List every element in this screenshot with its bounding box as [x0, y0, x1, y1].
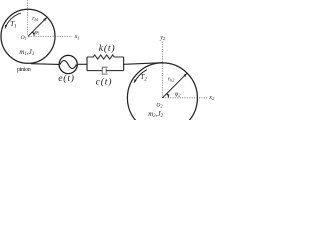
- svg-text:O2: O2: [156, 103, 162, 109]
- svg-text:pinion: pinion: [17, 67, 31, 73]
- axis x2 dashed horizontal (gear): [163, 97, 208, 99]
- svg-text:φ2: φ2: [175, 91, 181, 98]
- damper rod wire: [106, 70, 123, 72]
- svg-text:φ1: φ1: [35, 30, 40, 36]
- damper piston: [105, 68, 107, 73]
- pinion circle m1,J1: [1, 9, 55, 63]
- axis y1 dashed vertical (pinion): [27, 0, 29, 36]
- source e(t) circle: [59, 55, 77, 73]
- torque arrow T2: [134, 70, 147, 83]
- svg-text:e(t): e(t): [58, 73, 75, 84]
- angle arc phi1: [32, 32, 34, 36]
- torque arrow T1: [5, 13, 21, 28]
- spring-damper block left bar: [86, 57, 88, 71]
- gear circle m2,J2: [127, 63, 197, 133]
- axis x1 dashed horizontal (pinion): [28, 36, 72, 38]
- svg-text:c(t): c(t): [96, 76, 113, 87]
- wire: block to gear tangent: [124, 63, 163, 65]
- spring-damper block right bar: [123, 57, 125, 71]
- radius arrow r_b2: [162, 74, 186, 98]
- svg-text:rb2: rb2: [168, 77, 174, 83]
- wire: source to spring-damper block: [77, 63, 87, 65]
- source e(t) sine wave: [60, 61, 76, 69]
- svg-text:rb1: rb1: [32, 16, 38, 22]
- damper c(t) bottom branch wire: [87, 70, 102, 72]
- radius arrow r_b1: [28, 18, 47, 37]
- spring k(t) top branch: [87, 55, 124, 59]
- svg-text:O1: O1: [21, 35, 27, 41]
- wire: line of action pinion to source: [31, 63, 59, 66]
- axis y2 dashed vertical (gear): [161, 42, 163, 98]
- damper cylinder: [102, 67, 107, 74]
- svg-text:k(t): k(t): [99, 43, 116, 54]
- angle arc phi2: [167, 93, 169, 97]
